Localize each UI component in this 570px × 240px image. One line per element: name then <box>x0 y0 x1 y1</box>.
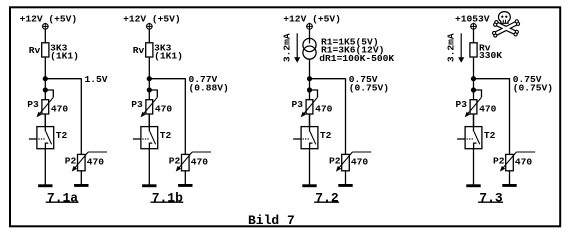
wire <box>44 30 46 44</box>
svg-text:P2: P2 <box>329 156 341 167</box>
resistor Rv <box>133 43 183 62</box>
wire wiper stub <box>516 151 535 153</box>
wire to output <box>149 78 185 80</box>
wire <box>473 57 475 79</box>
node junction wiper <box>147 87 152 92</box>
supply terminal <box>470 23 477 30</box>
wire <box>309 149 311 185</box>
wire <box>80 171 82 184</box>
wire <box>44 114 46 127</box>
svg-text:T2: T2 <box>56 130 68 141</box>
svg-text:+12V (+5V): +12V (+5V) <box>283 14 341 25</box>
wire <box>309 79 311 100</box>
node junction <box>471 76 476 81</box>
svg-text:P3: P3 <box>456 99 468 110</box>
svg-text:P2: P2 <box>65 156 77 167</box>
wire <box>148 30 150 44</box>
svg-text:1.5V: 1.5V <box>85 74 108 85</box>
svg-text:(0.75V): (0.75V) <box>349 82 389 93</box>
wire <box>44 79 46 100</box>
caption 7.1a <box>46 191 79 206</box>
svg-text:7.3: 7.3 <box>479 191 503 206</box>
svg-text:(0.75V): (0.75V) <box>513 82 553 93</box>
node junction <box>147 76 152 81</box>
wire <box>509 171 511 184</box>
ground <box>74 184 88 187</box>
ground <box>38 184 52 187</box>
svg-text:P3: P3 <box>27 99 39 110</box>
svg-text:P3: P3 <box>131 99 143 110</box>
potentiometer P2 470 <box>169 152 211 172</box>
wire <box>309 59 311 79</box>
svg-text:3.2mA: 3.2mA <box>446 33 457 62</box>
transistor T2 <box>133 114 172 149</box>
svg-text:T2: T2 <box>320 130 332 141</box>
svg-text:dR1=100K-500K: dR1=100K-500K <box>319 53 394 64</box>
caption 7.2 <box>314 191 339 206</box>
danger skull symbol <box>493 12 520 38</box>
wire to output <box>310 78 346 80</box>
potentiometer P2 470 <box>493 152 535 172</box>
svg-text:7.2: 7.2 <box>315 191 339 206</box>
potentiometer P2 470 <box>65 152 107 172</box>
wire to output <box>474 78 510 80</box>
ground <box>502 184 516 187</box>
wire <box>473 114 475 127</box>
supply terminal <box>146 23 153 30</box>
ground <box>142 184 156 187</box>
svg-text:P2: P2 <box>493 156 505 167</box>
ground <box>178 184 192 187</box>
voltage label 1.5V <box>85 74 108 85</box>
potentiometer P3 470 <box>456 90 497 117</box>
current source labels <box>319 37 394 64</box>
svg-text:470: 470 <box>479 103 497 114</box>
wire <box>473 30 475 44</box>
svg-text:+1053V: +1053V <box>455 14 490 25</box>
svg-text:Rv: Rv <box>133 45 145 56</box>
wire wiper stub <box>88 151 107 153</box>
svg-text:470: 470 <box>191 157 209 168</box>
svg-text:(1K1): (1K1) <box>50 50 79 61</box>
current source <box>303 38 316 59</box>
circuit 7.3 <box>446 14 553 206</box>
wire <box>184 171 186 184</box>
ground <box>338 184 352 187</box>
svg-text:T2: T2 <box>484 130 496 141</box>
svg-text:7.1a: 7.1a <box>47 191 78 206</box>
circuit 7.1a <box>20 14 108 206</box>
svg-text:330K: 330K <box>479 50 502 61</box>
wire wiper stub <box>192 151 211 153</box>
caption 7.1b <box>151 191 184 206</box>
svg-text:(0.88V): (0.88V) <box>189 82 229 93</box>
ground <box>302 184 316 187</box>
wire <box>473 149 475 185</box>
node junction <box>43 76 48 81</box>
svg-text:+12V (+5V): +12V (+5V) <box>123 14 181 25</box>
resistor Rv <box>29 43 79 62</box>
potentiometer P3 470 <box>131 90 172 117</box>
svg-text:Rv: Rv <box>29 45 41 56</box>
svg-text:7.1b: 7.1b <box>152 191 183 206</box>
wire <box>148 79 150 100</box>
caption 7.3 <box>478 191 503 206</box>
wire to output <box>45 78 81 80</box>
voltage label 0.77V (0.88V) <box>189 74 229 93</box>
potentiometer P2 470 <box>329 152 371 172</box>
svg-text:470: 470 <box>351 157 369 168</box>
voltage label 0.75V (0.75V) <box>513 74 553 93</box>
resistor Rv <box>470 42 502 61</box>
svg-text:P2: P2 <box>169 156 181 167</box>
wire <box>473 79 475 100</box>
wire wiper stub <box>352 151 371 153</box>
voltage label 0.75V (0.75V) <box>349 74 389 93</box>
svg-text:P3: P3 <box>292 99 304 110</box>
svg-text:470: 470 <box>51 103 69 114</box>
svg-text:470: 470 <box>315 103 333 114</box>
node junction wiper <box>471 87 476 92</box>
node junction <box>307 76 312 81</box>
wire <box>44 149 46 185</box>
transistor T2 <box>457 114 496 149</box>
wire <box>44 57 46 79</box>
svg-text:3.2mA: 3.2mA <box>282 33 293 62</box>
circuit 7.2 <box>282 14 395 206</box>
transistor T2 <box>293 114 332 149</box>
wire <box>148 149 150 185</box>
wire <box>148 114 150 127</box>
svg-text:(1K1): (1K1) <box>154 50 183 61</box>
svg-text:470: 470 <box>155 103 173 114</box>
supply terminal <box>306 23 313 30</box>
current arrow 3.2mA <box>282 33 301 63</box>
current arrow 3.2mA <box>446 33 465 63</box>
svg-text:+12V (+5V): +12V (+5V) <box>20 14 78 25</box>
svg-text:Bild 7: Bild 7 <box>248 213 295 228</box>
node junction wiper <box>307 87 312 92</box>
ground <box>466 184 480 187</box>
svg-text:470: 470 <box>515 157 533 168</box>
svg-text:T2: T2 <box>160 130 172 141</box>
wire <box>345 171 347 184</box>
potentiometer P3 470 <box>27 90 68 117</box>
potentiometer P3 470 <box>292 90 333 117</box>
node junction wiper <box>43 87 48 92</box>
wire <box>148 57 150 79</box>
svg-text:470: 470 <box>87 157 105 168</box>
wire <box>309 114 311 127</box>
supply terminal <box>42 23 49 30</box>
circuit 7.1b <box>123 14 229 206</box>
transistor T2 <box>29 114 68 149</box>
wire <box>309 30 311 44</box>
